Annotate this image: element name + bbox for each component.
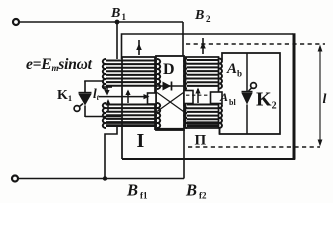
wire thick right vertical of load loop: [293, 33, 296, 159]
arrow winding current down (core I left): [102, 87, 112, 96]
arrow current If up (K1 loop): [105, 99, 110, 112]
wire load rail y=34: [122, 34, 294, 59]
svg-text:b: b: [237, 69, 242, 79]
winding W2 lower (core II): [184, 103, 222, 128]
wire from bottom rail up to winding I lower: [105, 127, 117, 179]
wire bottom rail y=179: [19, 178, 185, 180]
winding W1 lower (core I): [103, 103, 160, 128]
svg-text:f2: f2: [199, 191, 207, 201]
wire load loop bottom y=159: [122, 158, 295, 160]
svg-text:I: I: [137, 130, 145, 152]
svg-text:П: П: [195, 133, 207, 149]
wire winding II bottom-right to bias box: [219, 127, 221, 134]
svg-text:A: A: [226, 61, 237, 77]
core II outline: [186, 57, 219, 128]
dashed boundary bottom: [188, 146, 320, 148]
diode block right tab: [184, 91, 193, 104]
centerline dash at waist core II: [186, 94, 210, 96]
svg-text:A: A: [219, 90, 228, 104]
wire control waist (core I) with arrow into D: [99, 94, 150, 99]
thyristor K1: [74, 81, 91, 117]
wire corner down to winding II top: [182, 22, 184, 59]
dimension line l with arrows: [318, 45, 323, 147]
winding W2 upper (core II working winding B2): [184, 59, 222, 89]
node junction dot bottom rail: [103, 176, 107, 180]
winding W1 upper (core I working winding B1): [103, 59, 160, 89]
winding tab core II right waist: [211, 92, 223, 104]
wire K1 cathode to winding: [85, 116, 121, 118]
svg-text:2: 2: [206, 14, 211, 24]
arrow flux (core II) crossing dashed line: [200, 38, 206, 54]
svg-text:bl: bl: [229, 98, 236, 107]
svg-text:B: B: [110, 6, 120, 21]
wire K1 anode to winding: [84, 80, 104, 82]
svg-text:1: 1: [122, 12, 127, 22]
terminal T2 (bottom-left input): [12, 176, 18, 182]
arrow up at waist core II: [195, 88, 200, 104]
svg-text:f1: f1: [140, 191, 148, 201]
svg-text:B: B: [185, 181, 197, 200]
svg-text:e=Emsinωt: e=Emsinωt: [26, 56, 93, 73]
diode D1 symbol: [157, 82, 183, 91]
bias box (A_b / K2 loop): [220, 53, 281, 134]
svg-text:B: B: [126, 181, 138, 200]
svg-text:D: D: [163, 61, 175, 78]
svg-text:B: B: [194, 8, 204, 23]
core I outline: [122, 57, 155, 159]
dashed boundary top: [186, 43, 325, 45]
wire from bottom rail up to winding II bottom: [183, 130, 185, 179]
wire from node B1 down to winding I top: [116, 22, 118, 59]
arrow flux (load loop, core I): [136, 40, 142, 55]
diode block D box: [156, 56, 184, 130]
svg-text:l: l: [323, 92, 327, 107]
node B1 junction dot: [115, 20, 120, 25]
wire top rail y=22: [20, 21, 184, 23]
terminal T1 (top-left input): [13, 19, 19, 25]
diode block left tab: [148, 93, 157, 104]
wire crossing X inside D box: [157, 93, 184, 112]
arrow cross at waist core I: [125, 90, 130, 104]
thyristor K2: [242, 53, 257, 134]
